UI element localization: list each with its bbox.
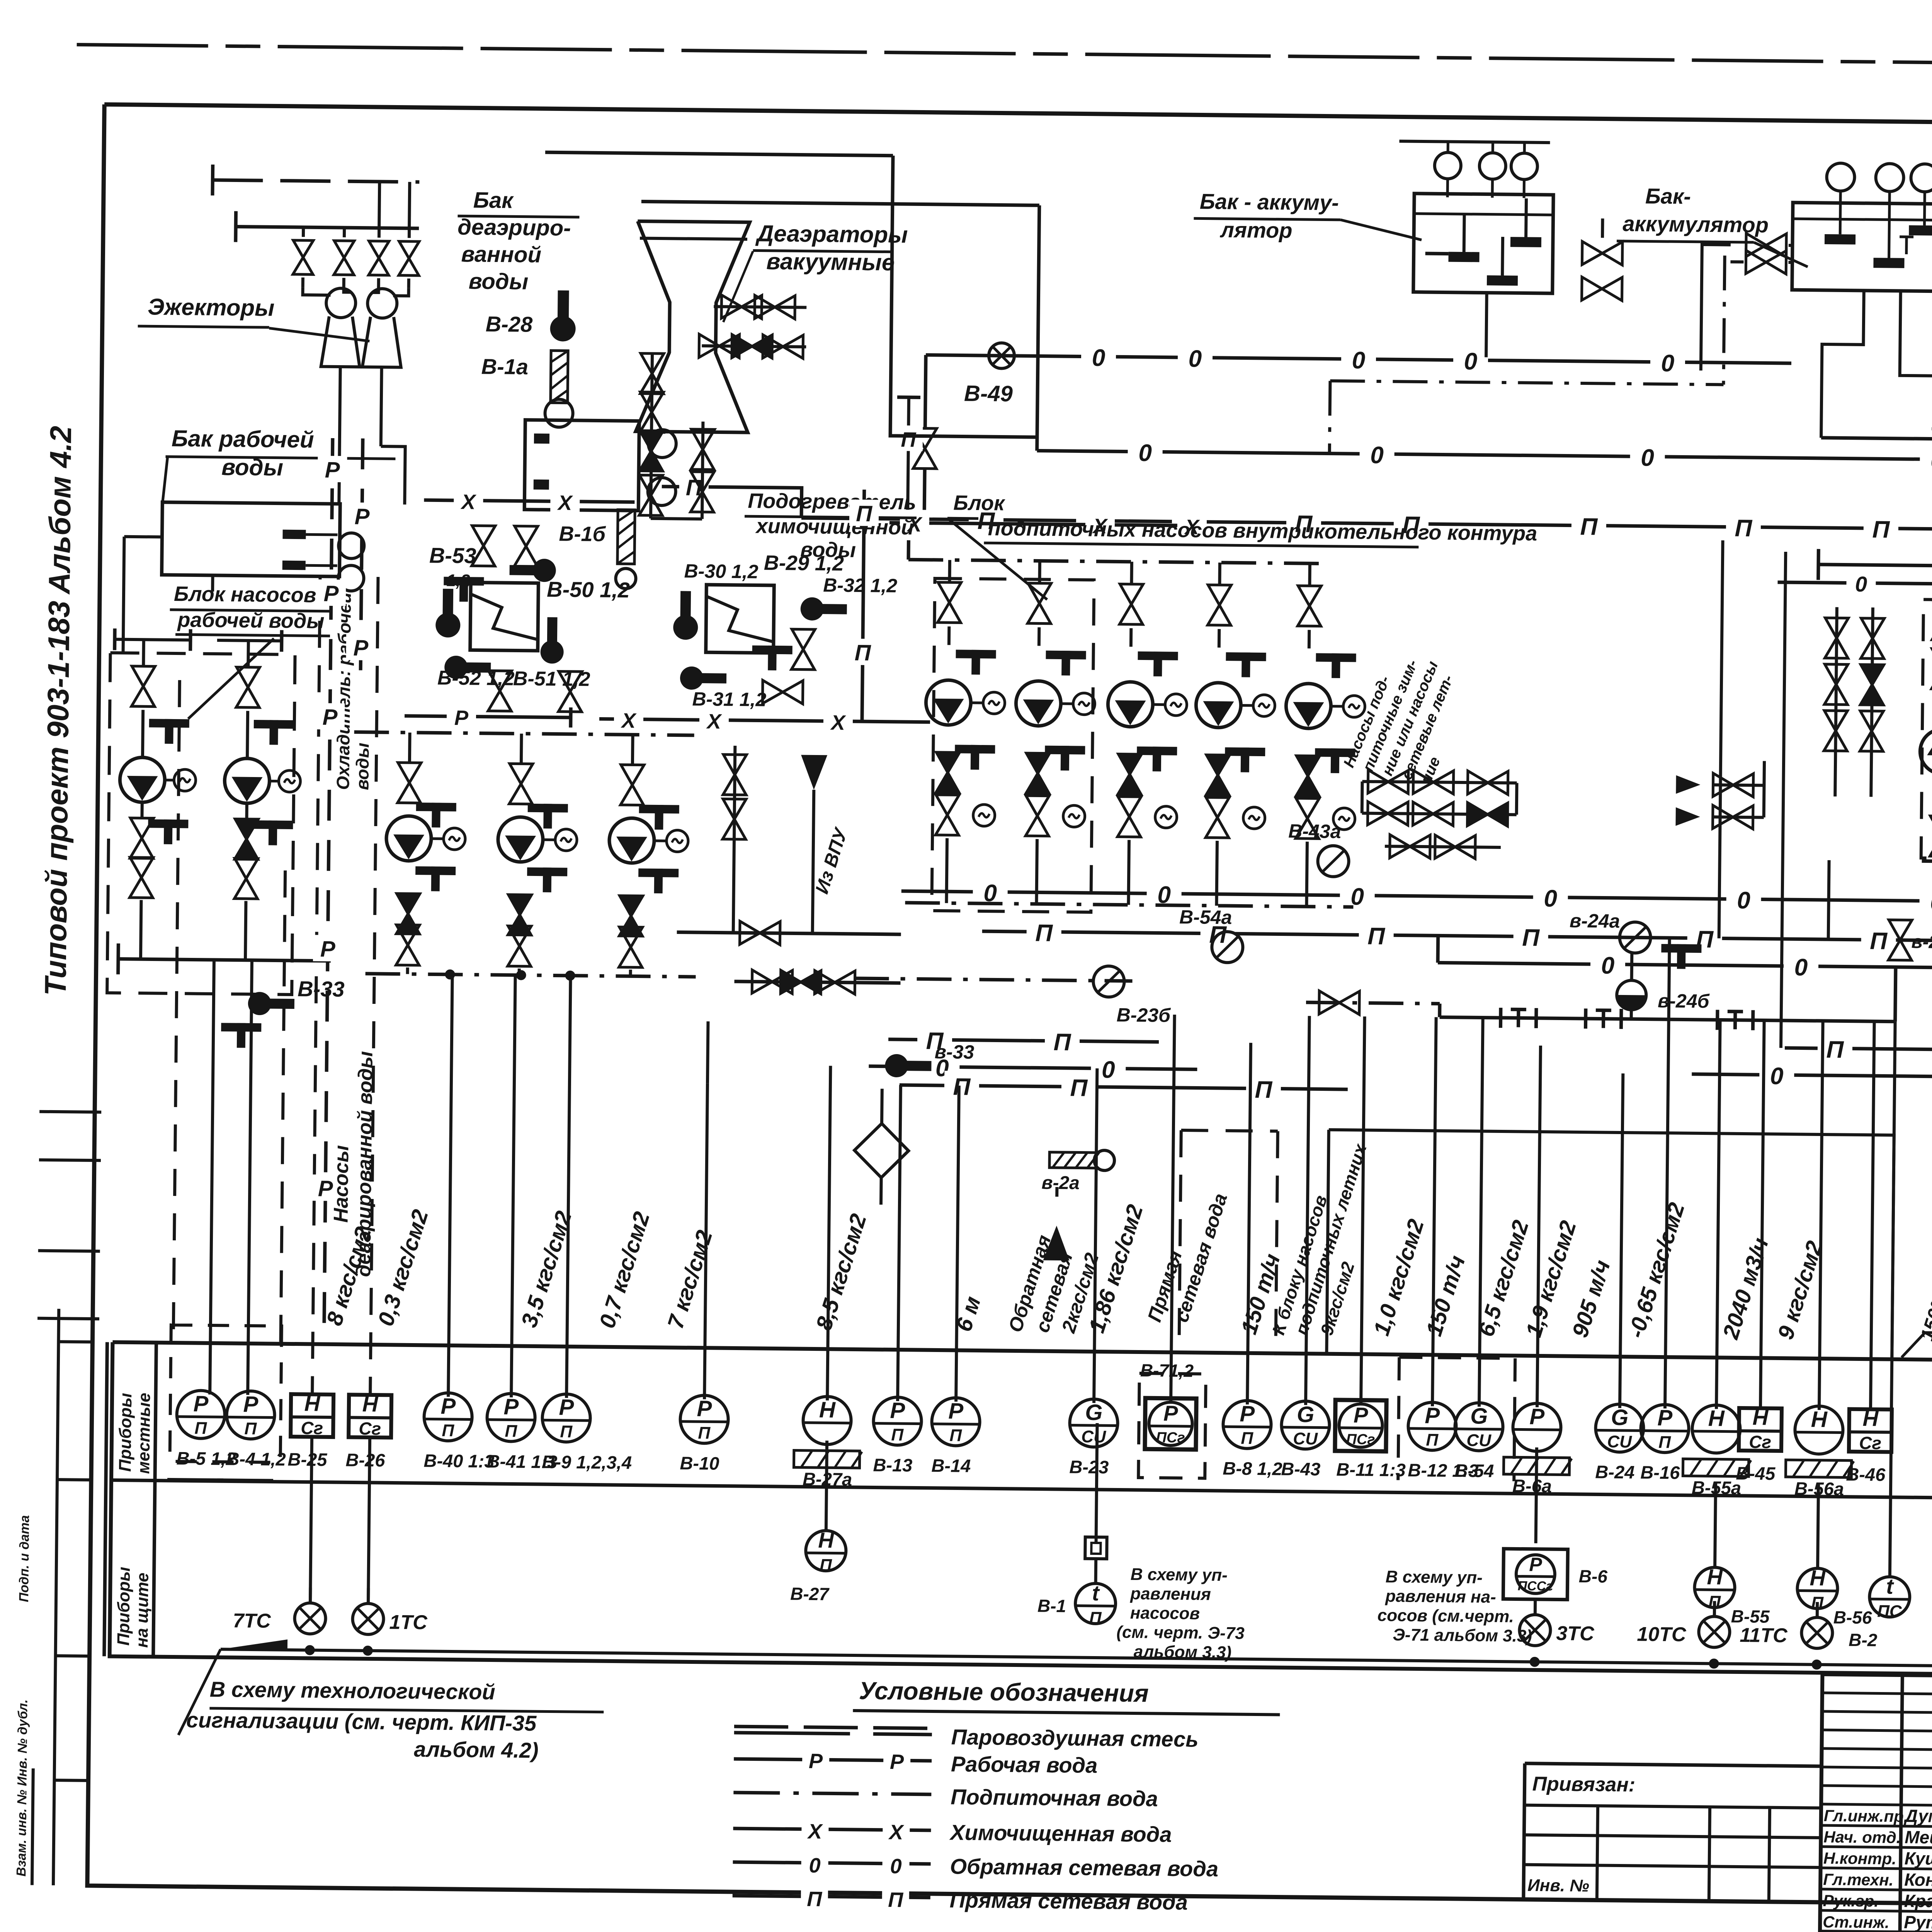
band bottom collector line [221,1649,1932,1671]
svg-text:0: 0 [1661,350,1674,377]
svg-text:Н: Н [362,1392,379,1416]
svg-text:10ТС: 10ТС [1637,1623,1687,1646]
instrument stem wire x4718 [1819,1021,1823,1410]
svg-text:Бак-: Бак- [1645,184,1691,208]
tank circles [338,533,364,559]
deaerated pumps lower collector [366,974,696,977]
svg-text:П: П [1053,1029,1071,1056]
instrument band frame [110,1342,1932,1681]
instrument В-27а [803,1396,851,1445]
legend steam-air line [734,1733,932,1735]
make-up discharge collector [905,903,1353,907]
svg-text:Приборы: Приборы [116,1393,135,1472]
svg-text:Инв. №: Инв. № [1527,1876,1589,1896]
svg-text:П: П [505,1422,517,1440]
svg-text:Р: Р [354,504,370,529]
svg-text:(см. черт. Э-73: (см. черт. Э-73 [1116,1623,1245,1643]
pump block working water dashed box [107,653,295,995]
svg-text:t: t [1886,1574,1895,1599]
dashed level lines to B-25 B-26 [312,577,320,1396]
svg-text:0: 0 [1770,1063,1784,1090]
svg-text:П: П [1826,1036,1844,1063]
instrument stem wire x4202 [1620,1073,1623,1408]
svg-text:Р: Р [320,937,336,962]
instrument В-5 1,2 [177,1390,225,1439]
O-line y1450 [1818,565,1932,573]
make-up pump 5 [1308,563,1311,585]
svg-text:t: t [1092,1581,1100,1605]
svg-text:Охладитель: рабочей: Охладитель: рабочей [333,592,355,790]
svg-text:воды: воды [469,269,529,294]
legend return network water [733,1862,931,1864]
pump 1 suction header [115,639,190,640]
instrument stem wire x3040 [1171,1015,1175,1404]
legend direct network water [733,1896,930,1898]
svg-text:Н.контр.: Н.контр. [1823,1849,1896,1868]
instrument В-40 1:3 [424,1393,472,1441]
legend make-up water [733,1793,931,1794]
working water pump 2 [247,641,250,666]
svg-text:ПССг: ПССг [1518,1578,1553,1594]
half circle B-24b [1617,980,1646,1010]
svg-text:В-26: В-26 [345,1449,385,1470]
legend working water [734,1759,932,1761]
accumulator tank 1 [1413,194,1553,293]
tank 1 outlet [1486,294,1487,357]
recirc dashed box A [1921,599,1932,860]
deaerated water pump 1 [408,733,412,762]
svg-text:Х: Х [888,1821,905,1844]
svg-text:CU: CU [1607,1432,1632,1452]
svg-text:В-23: В-23 [1069,1456,1109,1477]
ejector 1 [326,288,356,318]
svg-text:0: 0 [1930,447,1932,474]
svg-text:0: 0 [1601,952,1614,979]
instrument В-46 [1849,1409,1892,1452]
svg-text:Р: Р [890,1750,905,1774]
svg-text:П: П [949,1426,962,1445]
bowtie valves y2556 [734,981,900,983]
deaerated water pump 2 [520,734,523,763]
pipe: P-line bottom right segment [1785,1048,1932,1052]
svg-text:Руттасе: Руттасе [1904,1912,1932,1932]
orifice 3 [1716,1010,1719,1030]
svg-text:деаэриро-: деаэриро- [457,214,571,241]
svg-text:Мейтан: Мейтан [1905,1827,1932,1848]
thermometer B-28 [550,290,576,342]
svg-text:в-33: в-33 [934,1041,974,1063]
instrument B-2 t PS [1890,1022,1895,1577]
svg-text:0: 0 [1641,444,1654,471]
svg-text:Н: Н [1862,1406,1879,1430]
svg-text:Думан: Думан [1903,1806,1932,1826]
svg-text:Химочищенная вода: Химочищенная вода [949,1820,1172,1847]
svg-text:В-29 1,2: В-29 1,2 [764,551,844,575]
instrument В-9 1,2,3,4 [542,1394,590,1442]
recirc bracket line [1932,429,1932,435]
svg-text:В-16: В-16 [1640,1462,1680,1483]
B-33 mark [248,992,295,1015]
svg-text:Х: Х [621,709,637,732]
signal lamp 11ТС [1816,1602,1819,1617]
svg-text:П: П [442,1421,454,1440]
left margin column [53,1309,59,1885]
svg-text:ПСг: ПСг [1346,1431,1375,1448]
instrument В-12 1:3 [1408,1402,1456,1451]
pipe: P-line bottom center [900,1085,1348,1089]
svg-text:ванной: ванной [461,241,541,267]
pipe: O-line second [1037,451,1932,466]
svg-text:Сг: Сг [1749,1432,1771,1452]
svg-text:П: П [1255,1077,1273,1103]
svg-text:Подпиточная вода: Подпиточная вода [951,1784,1158,1811]
instrument В-16 [1641,1405,1689,1453]
pump block collector [118,959,331,961]
make-up suction header [908,560,1326,563]
svg-text:П: П [901,428,917,451]
svg-text:П: П [1426,1430,1439,1449]
svg-text:П: П [1035,920,1053,946]
instrument stem wire x4319 [1665,938,1670,1408]
svg-text:В-50 1,2: В-50 1,2 [547,577,630,602]
svg-text:П: П [1367,923,1386,950]
flow glass B-54a [1212,932,1243,963]
instrument stem wire x2841 [1094,1068,1097,1403]
tank 2 inlet valves [1746,233,1787,257]
svg-text:В-25: В-25 [287,1449,327,1470]
svg-text:Н: Н [304,1391,321,1415]
svg-text:В-54а: В-54а [1179,906,1232,928]
svg-text:Р: Р [503,1394,519,1419]
svg-text:П: П [820,1556,832,1575]
flow glass B-24a [1619,922,1651,953]
valves between tanks [1582,241,1622,265]
svg-text:Насосы: Насосы [330,1145,353,1223]
valve column right of deaerator 2 [702,422,703,519]
svg-text:0: 0 [890,1855,902,1878]
svg-text:Р: Р [322,705,338,730]
P dashed vertical left of B-49 [908,397,909,517]
signal lamp 7ТС [309,1587,312,1603]
svg-text:П: П [1522,925,1540,951]
O-line right short [1778,582,1932,584]
svg-text:Х: Х [706,710,723,733]
instrument Р [1145,1398,1196,1449]
svg-text:на щите: на щите [133,1573,152,1648]
center outline box lower [1327,1130,1894,1359]
svg-text:П: П [244,1419,257,1438]
svg-text:П: П [891,1425,904,1444]
instrument stem wire x2484 [956,1086,959,1402]
B-50 valves [472,526,495,566]
instrument stem wire x3988 [1537,1046,1541,1407]
svg-text:Бак: Бак [473,187,514,213]
svg-text:Р: Р [1529,1404,1545,1429]
svg-text:Подогреватель: Подогреватель [748,489,916,514]
svg-text:Р: Р [948,1398,964,1423]
instrument В-10 [680,1395,728,1444]
dashed box around B-5 B-4 [170,1325,281,1463]
svg-text:1ТС: 1ТС [389,1611,428,1634]
svg-text:Р: Р [1240,1401,1255,1427]
ejector supply valves [302,227,305,237]
pump 2 suction header [217,640,282,641]
svg-text:В-53: В-53 [429,543,476,568]
svg-text:Х: Х [557,491,573,514]
svg-text:Рук.гр.: Рук.гр. [1823,1891,1879,1910]
svg-text:Х: Х [807,1820,823,1843]
instrument stem wire x2151 [827,1066,830,1400]
svg-text:Условные обозначения: Условные обозначения [859,1677,1149,1707]
svg-text:Р: Р [454,706,469,730]
svg-text:Гл.техн.: Гл.техн. [1823,1870,1893,1889]
svg-text:В схему уп-: В схему уп- [1386,1567,1483,1587]
svg-text:ПС: ПС [1877,1602,1902,1621]
valve column right of deaerator 1 [651,352,652,519]
instrument В-55а [1692,1405,1740,1453]
svg-text:В-56: В-56 [1833,1607,1872,1628]
svg-text:в-24а: в-24а [1570,910,1620,932]
svg-text:Эжекторы: Эжекторы [148,294,275,321]
steam-air dashed header [213,180,419,182]
svg-text:Взам. инв. № Инв. № дубл.: Взам. инв. № Инв. № дубл. [14,1699,30,1877]
svg-text:0: 0 [1138,440,1152,466]
svg-text:Нач. отд.: Нач. отд. [1823,1828,1901,1847]
pipe: make-up water dash-dot line [854,978,1133,981]
svg-text:Бак - аккуму-: Бак - аккуму- [1200,189,1339,214]
svg-text:П: П [888,1888,904,1912]
make-up dashed reserve box [932,578,1094,912]
svg-text:В-6: В-6 [1579,1566,1608,1587]
svg-text:0: 0 [1464,348,1477,375]
B-29 valves [791,629,815,670]
svg-text:В-6а: В-6а [1512,1475,1552,1496]
svg-text:П: П [1870,928,1888,954]
svg-text:Блок: Блок [953,491,1005,515]
ejector 2 [367,289,397,318]
svg-text:В схему технологической: В схему технологической [210,1677,495,1704]
svg-text:П: П [1241,1429,1253,1448]
deaerator outlet valves row 1 [714,306,806,307]
signal lamp 1ТС [367,1588,370,1604]
X collector under exchangers [599,719,930,722]
svg-text:В-71,2: В-71,2 [1140,1360,1194,1381]
svg-text:Н: Н [1708,1406,1725,1431]
svg-text:0: 0 [1188,345,1202,372]
instrument В-13 [873,1397,922,1445]
svg-text:В-40 1:3: В-40 1:3 [423,1450,494,1471]
svg-text:воды: воды [352,743,372,790]
signal lamp 10ТС [1713,1601,1716,1616]
svg-text:Р: Р [353,635,369,660]
flow glass B-23b [1093,966,1124,997]
instrument В-14 [932,1398,980,1446]
privyazan box [1525,1764,1821,1766]
P marks vertical line left [324,438,332,1342]
instrument stem wire x3532 [1361,1017,1365,1406]
P collector under B-50 [405,716,571,718]
svg-text:Х: Х [830,711,847,734]
svg-text:Сг: Сг [359,1418,381,1439]
X header line [424,500,634,502]
svg-text:Х: Х [460,490,477,514]
sensor B-1b [617,510,635,564]
pipe: P-line lower main [982,931,1932,947]
svg-text:Р: Р [1657,1405,1673,1430]
heat exchanger B-50 [470,582,539,651]
svg-text:сигнализации (см. черт. КИП-3: сигнализации (см. черт. КИП-35 [186,1708,537,1735]
svg-text:Н: Н [1752,1405,1769,1429]
svg-text:Н: Н [818,1528,835,1552]
svg-text:насосов: насосов [1130,1604,1200,1623]
pipe: O-line lower main [901,891,1932,908]
svg-text:П: П [854,640,871,665]
instrument В-24 [1595,1404,1644,1452]
svg-text:Р: Р [243,1392,259,1417]
instrument В-43 [1281,1401,1330,1449]
svg-text:Р: Р [890,1398,905,1423]
line to VPU valves [733,746,735,933]
make-up dash-dot to tanks [1330,381,1330,454]
svg-text:Блок насосов: Блок насосов [174,582,316,607]
svg-text:В-27: В-27 [790,1583,830,1604]
orifice 1 [1499,1008,1502,1028]
dash-dot collector center top [906,540,910,560]
X header line B [889,523,1201,526]
svg-text:Р: Р [559,1395,574,1420]
instrument stem wire x2333 [898,1085,901,1401]
svg-text:Прямая сетевая вода: Прямая сетевая вода [949,1888,1188,1914]
make-up pump 3 [1130,562,1133,583]
svg-text:11ТС: 11ТС [1740,1624,1788,1647]
svg-text:В-2: В-2 [1849,1630,1878,1650]
svg-text:4: 4 [1702,1928,1716,1932]
svg-text:7ТС: 7ТС [233,1610,271,1633]
instrument stem wire x3717 [1432,1017,1436,1406]
svg-text:0: 0 [1794,954,1808,981]
svg-text:П: П [698,1423,711,1442]
right side verticals [1719,540,1723,938]
tank 2 outlet piping [1821,290,1864,438]
svg-text:Н: Н [819,1397,836,1422]
valve column [1835,607,1837,796]
instrument stem wire x1170 [448,975,452,1397]
signal lamp 3ТС [1534,1599,1537,1615]
instrument stem wire x1333 [511,975,515,1398]
svg-text:В-10: В-10 [680,1453,719,1474]
svg-text:в-2а: в-2а [1041,1173,1080,1194]
svg-text:В-1б: В-1б [559,522,606,546]
svg-text:Бак рабочей: Бак рабочей [172,425,314,453]
pipe: orifice metering line [1440,1017,1895,1021]
instrument stem wire x4566 [1760,1020,1764,1410]
svg-text:G: G [1085,1400,1103,1425]
svg-text:П: П [1658,1433,1671,1452]
svg-text:Привязан:: Привязан: [1532,1773,1635,1796]
svg-text:CU: CU [1293,1429,1318,1449]
dashed instrument group boxes [1138,1373,1206,1478]
cooler box [524,420,639,511]
deaerated water pump 3 [631,735,634,764]
top cut dashed line [77,44,1932,70]
svg-text:П: П [1735,515,1753,542]
instrument В-23 [1070,1399,1118,1447]
svg-text:Типовой проект 903-1-183: Типовой проект 903-1-183 [38,600,76,996]
svg-text:В-28: В-28 [485,312,533,337]
svg-text:В-32 1,2: В-32 1,2 [823,574,897,597]
svg-text:П: П [1872,516,1890,543]
svg-text:Р: Р [323,581,339,606]
pipe: return network water O-line upper [926,355,1791,364]
svg-text:В-49: В-49 [964,381,1013,406]
svg-text:деаэрированной воды: деаэрированной воды [352,1051,377,1277]
svg-text:В-33: В-33 [298,976,345,1001]
instrument stem wire x3238 [1247,1043,1251,1405]
svg-text:равления на-: равления на- [1385,1587,1496,1607]
svg-text:Ст.инж.: Ст.инж. [1823,1913,1889,1932]
svg-text:Паровоздушная стесь: Паровоздушная стесь [951,1725,1198,1751]
svg-text:0: 0 [1855,572,1867,596]
instrument В-56а [1795,1406,1843,1454]
deaerator outlet valves row 2 [702,346,806,347]
svg-text:G: G [1470,1403,1488,1429]
pipe: O-line bottom segments [869,1066,1197,1069]
pipe: direct network water P-line main [662,486,802,518]
instrument stem wire x4851 [1871,1021,1874,1410]
dash-dot branch to orifice line [1306,1002,1440,1003]
svg-text:П: П [194,1419,207,1438]
svg-text:Конькова: Конькова [1904,1869,1932,1890]
svg-text:17077-16: 17077-16 [1532,1927,1638,1932]
svg-text:Р: Р [809,1750,823,1773]
svg-text:П: П [1070,1075,1088,1101]
valve on P line right 1 [1888,920,1912,961]
svg-text:В-54: В-54 [1454,1460,1494,1481]
flow glass B-43a [1318,845,1349,877]
vertical pipe B-10 stem upper [707,1021,708,1083]
svg-text:Н: Н [1707,1565,1723,1589]
svg-text:равления: равления [1130,1584,1211,1604]
svg-text:В схему уп-: В схему уп- [1131,1565,1228,1585]
svg-text:альбом 3.3): альбом 3.3) [1134,1642,1232,1662]
accumulator tank 2 [1792,202,1932,291]
horizontal bowties left of recirc [1713,773,1753,797]
instrument В-54 [1455,1403,1503,1451]
svg-text:Подп. и дата: Подп. и дата [17,1515,32,1602]
deaerator vessel [636,221,750,432]
title block outer [1820,1674,1932,1932]
svg-text:В-43: В-43 [1281,1459,1320,1480]
instrument stem wire x1833 [704,1083,707,1399]
svg-text:В-24: В-24 [1595,1461,1634,1482]
svg-text:В-55: В-55 [1731,1606,1770,1627]
recirc collector [1922,861,1932,863]
svg-text:В-14: В-14 [931,1455,971,1476]
lower pipe y2430 [677,932,901,935]
svg-text:сосов (см.черт.: сосов (см.черт. [1378,1606,1514,1626]
instrument stem wire x3838 [1479,1018,1483,1407]
instrument В-25 [291,1394,333,1437]
svg-text:0: 0 [1544,885,1557,912]
svg-text:Сг: Сг [301,1418,323,1438]
svg-text:В-23б: В-23б [1116,1004,1171,1026]
instrument В-8 1,2 [1223,1400,1271,1449]
svg-text:в-2б: в-2б [1911,932,1932,952]
feed manifold valves [1368,770,1408,794]
svg-text:лятор: лятор [1219,218,1293,243]
instrument В-26 [349,1395,391,1437]
svg-text:П: П [1580,514,1598,540]
